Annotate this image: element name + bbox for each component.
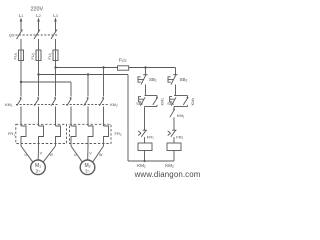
- svg-text:SB1: SB1: [149, 77, 157, 83]
- svg-text:V: V: [40, 152, 43, 156]
- svg-text:3~: 3~: [36, 169, 41, 174]
- svg-text:L3: L3: [53, 13, 58, 18]
- svg-text:W: W: [50, 153, 54, 157]
- svg-text:www.diangon.com: www.diangon.com: [134, 170, 200, 179]
- svg-text:L1: L1: [19, 13, 24, 18]
- svg-text:FU1: FU1: [14, 52, 18, 59]
- svg-text:FR2: FR2: [176, 134, 183, 139]
- svg-text:FU1: FU1: [48, 52, 52, 59]
- svg-text:KM2: KM2: [110, 102, 118, 107]
- svg-text:FR2: FR2: [115, 131, 122, 136]
- svg-text:KM2: KM2: [165, 163, 174, 169]
- svg-text:SB4: SB4: [167, 102, 174, 106]
- svg-text:FR1: FR1: [147, 134, 154, 139]
- svg-text:FU1: FU1: [31, 52, 35, 59]
- svg-text:KM2: KM2: [190, 98, 195, 106]
- svg-text:U: U: [74, 153, 77, 157]
- svg-text:L2: L2: [36, 13, 41, 18]
- svg-text:KM1: KM1: [177, 113, 185, 118]
- svg-text:KM1: KM1: [159, 98, 164, 106]
- svg-text:220V: 220V: [31, 7, 44, 13]
- svg-text:FR1: FR1: [8, 131, 15, 136]
- svg-text:W: W: [99, 153, 103, 157]
- svg-text:U: U: [25, 153, 28, 157]
- svg-text:KM1: KM1: [5, 102, 13, 107]
- svg-text:KM1: KM1: [137, 163, 146, 169]
- svg-text:3~: 3~: [85, 169, 90, 174]
- svg-text:SB3: SB3: [180, 77, 188, 83]
- svg-text:V: V: [89, 152, 92, 156]
- svg-text:FU2: FU2: [119, 58, 127, 64]
- svg-text:SB2: SB2: [136, 102, 143, 106]
- svg-text:QS: QS: [9, 33, 15, 38]
